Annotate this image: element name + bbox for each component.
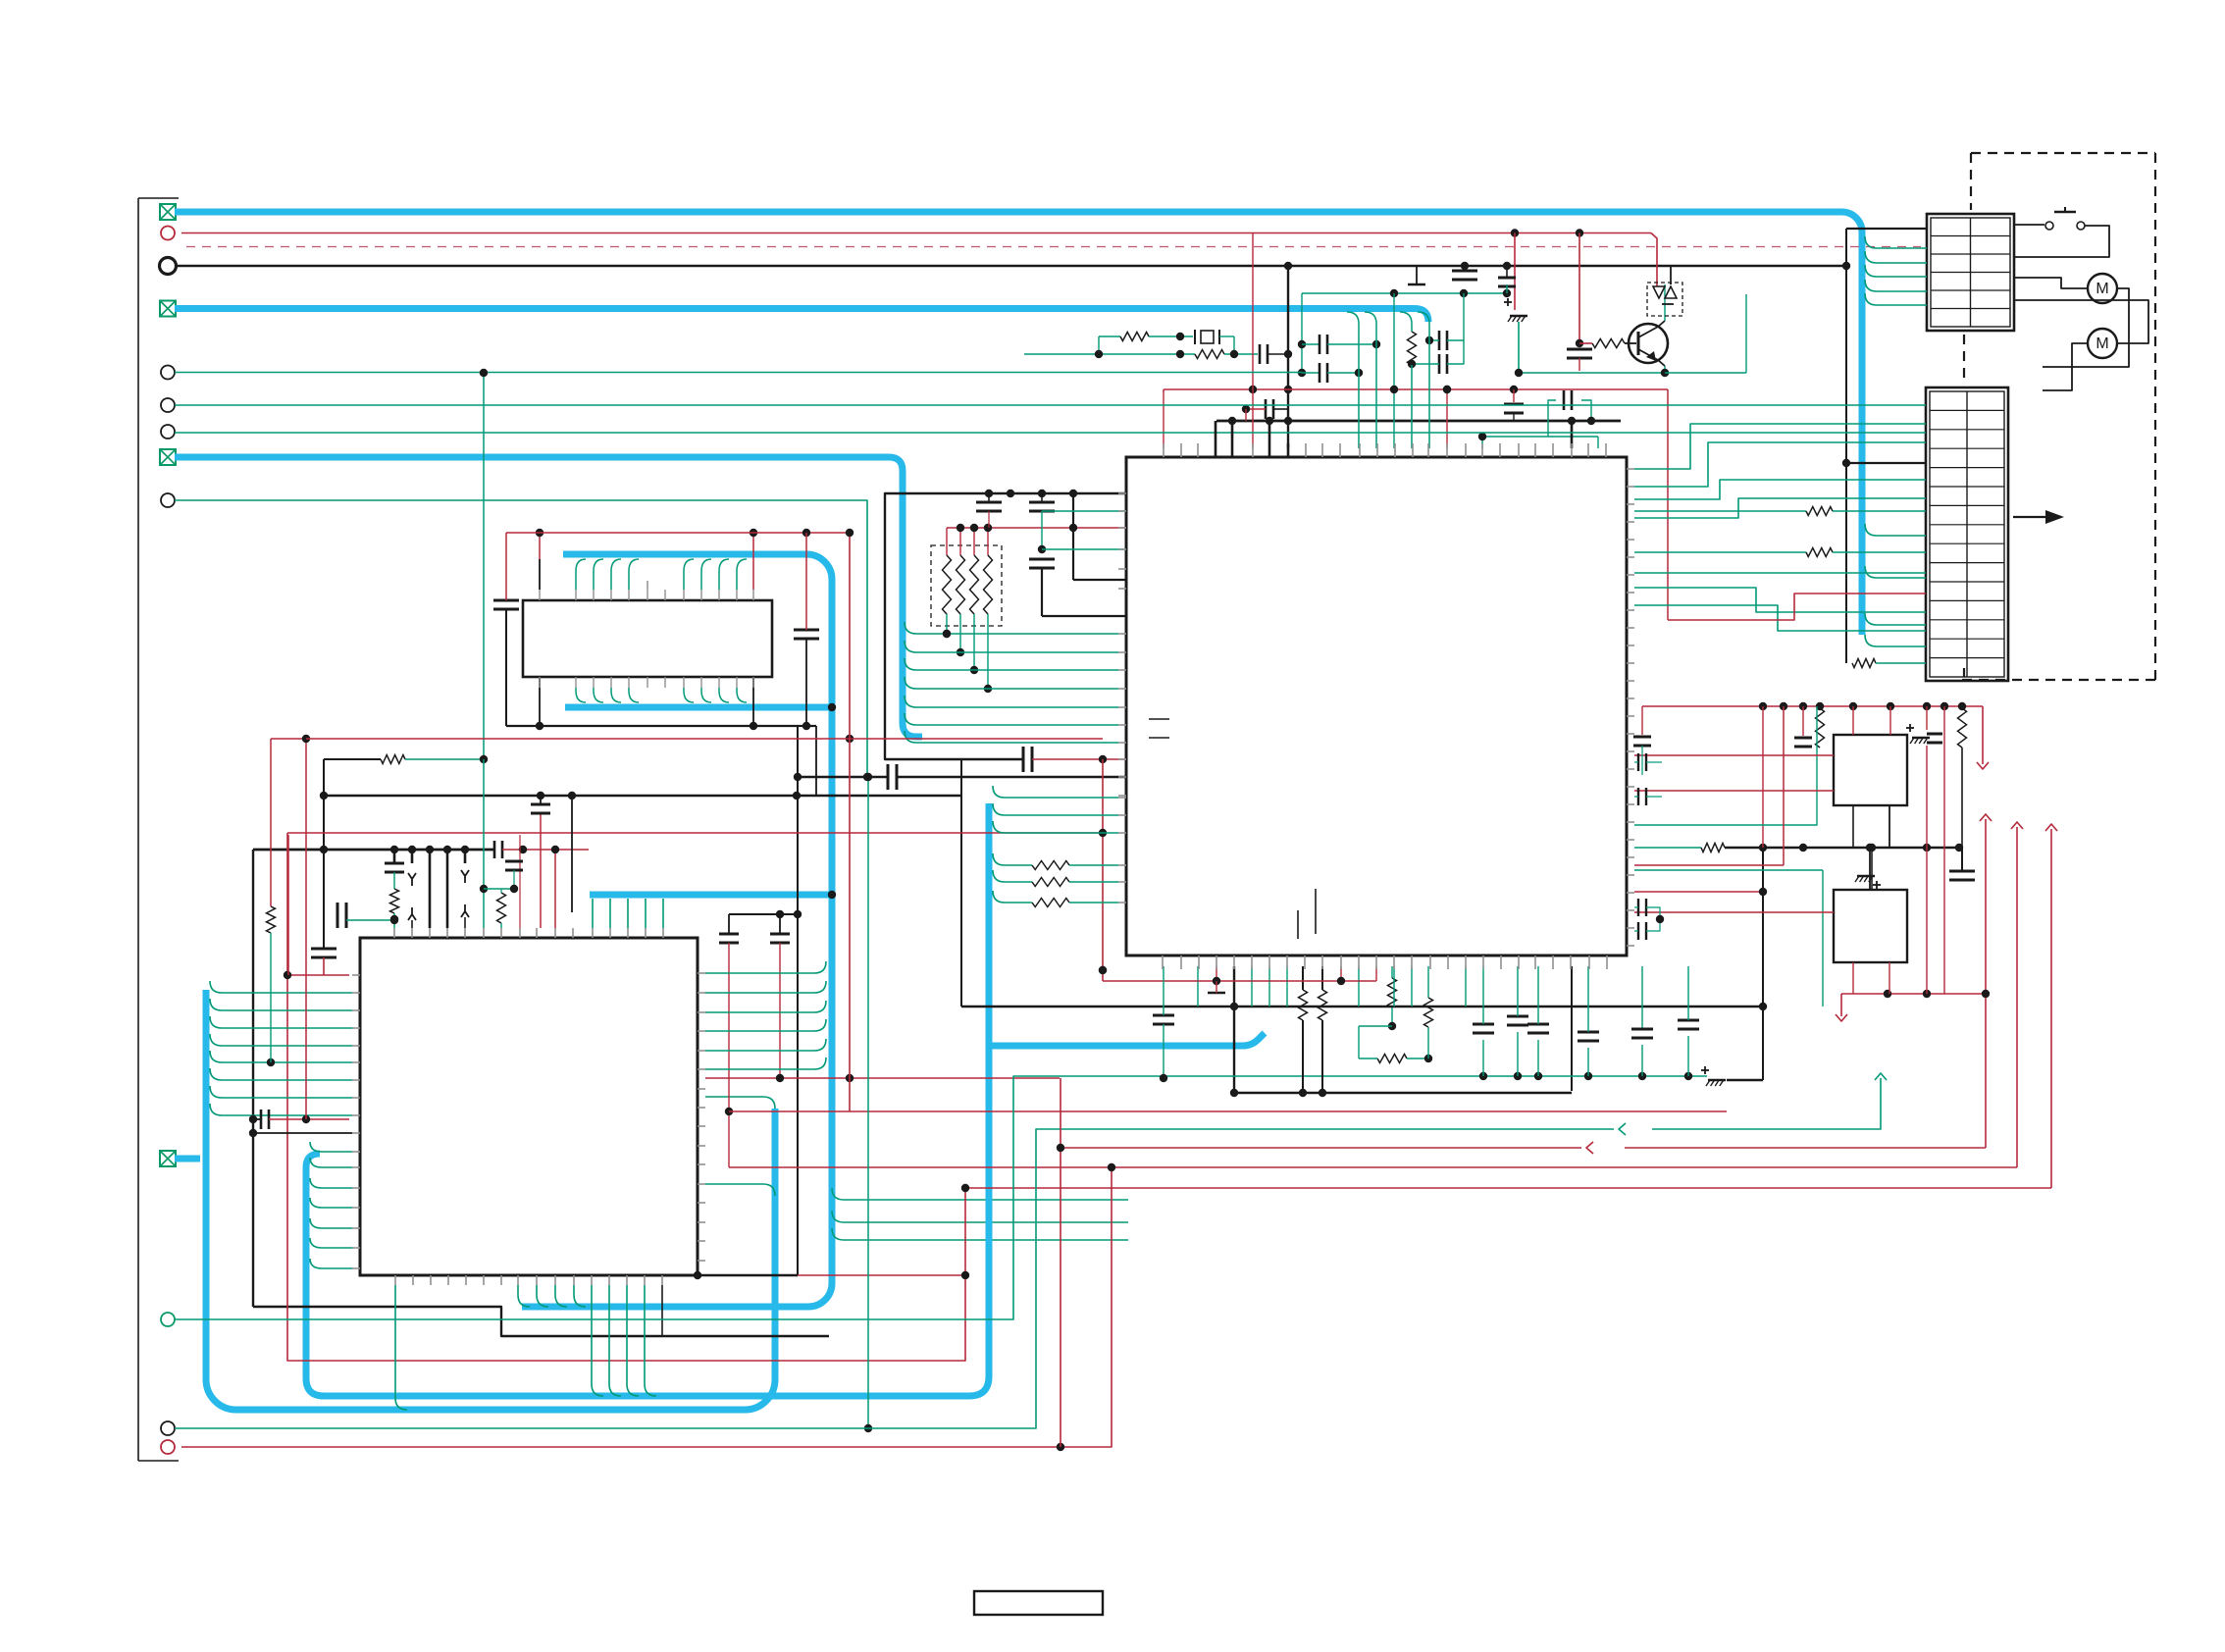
svg-text:M: M [2096, 336, 2108, 352]
svg-text:M: M [2096, 281, 2108, 297]
